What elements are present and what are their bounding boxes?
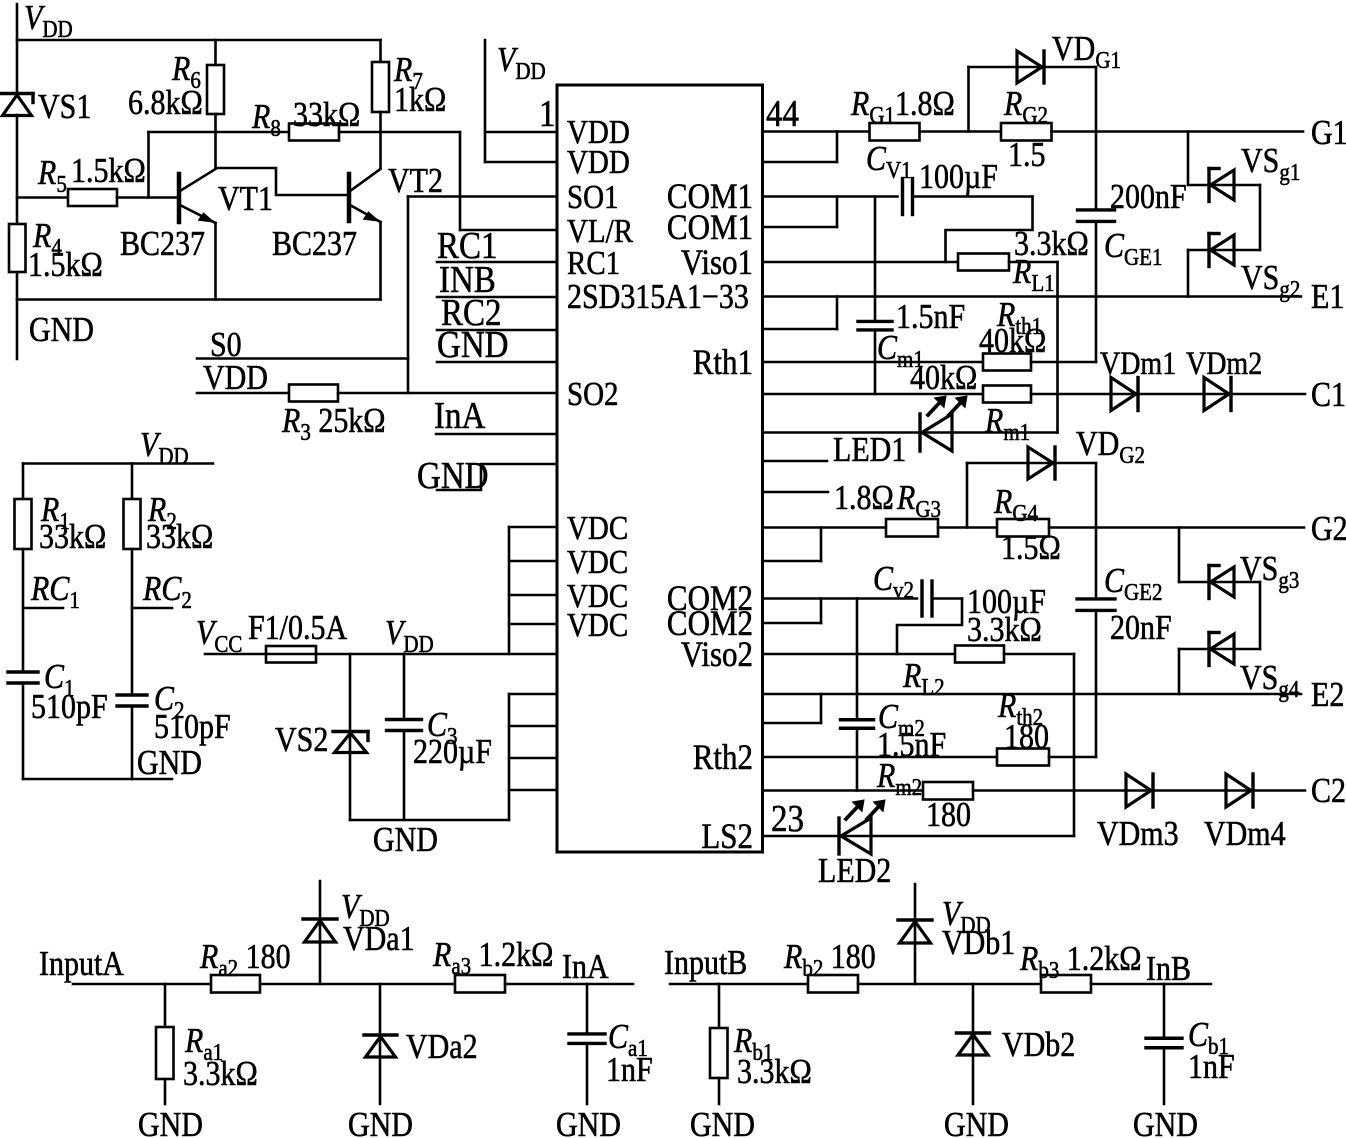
label VDm2 xyxy=(1186,345,1262,381)
pin 1 label xyxy=(539,92,555,135)
svg-text:GND: GND xyxy=(437,323,508,366)
wire VSg1-VSg2 xyxy=(1188,185,1260,250)
svg-text:VDm4: VDm4 xyxy=(1204,815,1286,854)
label GND VDa2 xyxy=(348,1106,413,1138)
label VDD VDa1 xyxy=(341,888,390,931)
svg-text:GND: GND xyxy=(138,1106,203,1138)
label R3 xyxy=(281,402,386,445)
svg-text:100µF: 100µF xyxy=(919,158,998,197)
label InB node xyxy=(1146,950,1191,989)
label InputB xyxy=(664,944,747,983)
label Rth2 xyxy=(997,687,1049,757)
wire E2 stub 2 xyxy=(763,694,822,723)
label VSg2 xyxy=(1241,259,1300,302)
label Ra1 xyxy=(183,1022,258,1094)
svg-text:RC1: RC1 xyxy=(567,244,620,281)
resistor RG4 xyxy=(997,519,1049,537)
wire VDD pin vertical xyxy=(485,40,557,162)
svg-text:1kΩ: 1kΩ xyxy=(394,81,446,120)
label GND Ca1 xyxy=(556,1106,621,1138)
wire stub LED1 pin xyxy=(763,460,828,463)
wire Rth1 line xyxy=(763,361,984,364)
svg-text:180: 180 xyxy=(926,796,971,835)
svg-text:510pF: 510pF xyxy=(31,688,108,727)
label VDD VDb1 xyxy=(942,895,991,938)
label Cv2 value xyxy=(967,583,1046,622)
label C2 xyxy=(154,680,231,747)
svg-text:BC237: BC237 xyxy=(120,225,205,264)
label VT2 xyxy=(388,162,443,201)
capacitor C2 xyxy=(117,695,147,779)
resistor R7 xyxy=(372,40,389,168)
wire R2 top lead xyxy=(131,464,134,500)
wire RL1 to LED1 vertical xyxy=(1056,262,1059,433)
svg-text:InputB: InputB xyxy=(664,944,747,983)
diode VDm4 xyxy=(1226,774,1253,807)
label RG4 xyxy=(993,483,1038,526)
svg-text:20nF: 20nF xyxy=(1110,609,1172,648)
resistor RL2 xyxy=(955,646,1004,663)
resistor Rb2 xyxy=(808,975,858,993)
svg-text:Rb3​ 1.2kΩ: Rb3​ 1.2kΩ xyxy=(1019,940,1141,983)
diode VDa2 xyxy=(364,984,397,1104)
label Cm1 value xyxy=(896,298,965,337)
label VT2 part BC237 xyxy=(272,225,357,264)
label CGE2 xyxy=(1104,562,1163,605)
resistor Rb1 xyxy=(710,984,728,1104)
svg-text:VDm2: VDm2 xyxy=(1186,345,1262,381)
wire pin stub 2 xyxy=(763,132,838,163)
label VS2 xyxy=(275,721,328,760)
diode VDa1 xyxy=(303,881,337,984)
label R5 xyxy=(37,152,146,197)
label Rb2 xyxy=(783,938,876,981)
svg-text:G1: G1 xyxy=(1311,114,1346,153)
wire VT1 emitter down xyxy=(214,223,217,300)
label VCC xyxy=(196,614,242,657)
wire stub RG3 pin xyxy=(763,491,829,494)
label GND under C3 xyxy=(373,821,438,860)
svg-text:COM1: COM1 xyxy=(667,208,753,248)
resistor Ra1 xyxy=(156,984,174,1104)
wire VL/R pin xyxy=(460,132,557,230)
svg-text:LED1: LED1 xyxy=(833,431,906,470)
diode VDb1 xyxy=(898,884,932,984)
svg-text:220µF: 220µF xyxy=(413,733,492,772)
label GND Cb1 xyxy=(1133,1106,1198,1138)
wire VDC stubs xyxy=(509,527,557,654)
label VSg4 xyxy=(1240,659,1300,702)
label RG1 xyxy=(850,85,955,128)
svg-text:33kΩ: 33kΩ xyxy=(39,518,106,557)
label Rm1 value xyxy=(910,359,977,398)
wire InputA line 3 xyxy=(505,983,633,986)
svg-text:VDC: VDC xyxy=(567,509,628,546)
label CV1 value xyxy=(919,158,998,197)
label RG3 value xyxy=(834,479,894,518)
wire bottom rail RC section xyxy=(23,778,172,781)
label VDm4 xyxy=(1204,815,1286,854)
svg-text:VT2: VT2 xyxy=(388,162,443,201)
transistor VT1 xyxy=(179,169,216,223)
label E1 xyxy=(1311,278,1344,317)
diode VDm3 xyxy=(1126,774,1153,807)
resistor R4 xyxy=(9,224,26,272)
svg-text:R3​ 25kΩ: R3​ 25kΩ xyxy=(281,402,386,445)
label GND pin xyxy=(437,323,508,366)
label Rb3 xyxy=(1019,940,1141,983)
label Cm2 value xyxy=(877,726,946,765)
label C1 xyxy=(31,658,108,727)
svg-text:GND: GND xyxy=(373,821,438,860)
label VDD at R3 xyxy=(203,359,268,398)
svg-text:VDa2: VDa2 xyxy=(406,1028,478,1067)
capacitor CGE2 xyxy=(1077,463,1115,757)
capacitor Cm2 xyxy=(841,599,874,791)
label RC1 pin xyxy=(437,224,497,267)
label Ra3 xyxy=(432,936,553,979)
label Ca1 xyxy=(606,1018,653,1090)
label R6 xyxy=(128,50,203,123)
svg-text:SO2: SO2 xyxy=(567,375,619,412)
svg-text:1nF: 1nF xyxy=(606,1051,653,1090)
label Cb1 xyxy=(1188,1016,1235,1087)
svg-text:44: 44 xyxy=(766,92,799,135)
svg-text:VDC: VDC xyxy=(567,606,628,643)
svg-text:Viso2: Viso2 xyxy=(681,635,753,675)
node VDD label top-left xyxy=(24,0,73,42)
resistor RG2 xyxy=(1001,123,1052,141)
label GND jog xyxy=(417,454,488,497)
wire lower stubs to GND xyxy=(509,694,557,820)
transistor VT2 xyxy=(349,169,381,222)
svg-text:BC237: BC237 xyxy=(272,225,357,264)
label CGE2 value xyxy=(1110,609,1172,648)
svg-text:C2: C2 xyxy=(1311,772,1346,811)
svg-text:1: 1 xyxy=(539,92,555,135)
label R4 xyxy=(28,217,103,285)
wire R8 to R5 vertical xyxy=(147,132,150,198)
label RL2 xyxy=(902,657,945,700)
label GND VDb2 xyxy=(944,1106,1009,1138)
resistor Rth2 xyxy=(997,749,1049,766)
wire GND pin xyxy=(437,361,557,364)
svg-text:40kΩ: 40kΩ xyxy=(910,359,977,398)
wire RL1 right xyxy=(1009,261,1058,264)
label RL1 value xyxy=(1014,225,1089,264)
wire pin44 line xyxy=(763,130,870,133)
wire COM1 stub 2 xyxy=(763,197,838,228)
resistor Rm1 xyxy=(983,386,1031,403)
wire VDD rail 2 xyxy=(23,462,213,465)
capacitor Ca1 xyxy=(569,984,605,1104)
wire G1 line xyxy=(1052,130,1304,133)
wire Viso2 xyxy=(763,653,956,656)
wire InputA line 1 xyxy=(73,983,211,986)
svg-text:RG1​1.8Ω: RG1​1.8Ω xyxy=(850,85,955,128)
diode VDG1 xyxy=(969,51,1097,132)
label CGE1 value 200nF xyxy=(1110,178,1187,217)
wire INB pin xyxy=(437,296,557,299)
svg-text:VDD: VDD xyxy=(567,143,630,180)
resistor R1 xyxy=(15,499,32,549)
label InA node xyxy=(562,948,609,987)
resistor Rth1 xyxy=(983,354,1031,371)
svg-text:Ra3​ 1.2kΩ: Ra3​ 1.2kΩ xyxy=(432,936,553,979)
wire VSg2 to E1 xyxy=(1187,250,1190,297)
svg-text:510pF: 510pF xyxy=(154,708,231,747)
svg-text:VS2: VS2 xyxy=(275,721,328,760)
label R2 xyxy=(146,491,213,557)
IC U1 2SD315A1-33 box xyxy=(557,85,763,852)
wire Rth2 line xyxy=(763,756,998,759)
label RC2 node xyxy=(142,570,192,613)
svg-text:E1: E1 xyxy=(1311,278,1344,317)
label RL2 value xyxy=(967,611,1042,650)
resistor Ra2 xyxy=(211,975,260,993)
label VSg3 xyxy=(1240,550,1299,593)
wire CV1 to Viso1 jog xyxy=(946,197,1033,263)
svg-text:InputA: InputA xyxy=(39,945,124,984)
wire RC2 pin xyxy=(437,329,557,332)
svg-text:InA: InA xyxy=(434,394,485,437)
resistor RG1 xyxy=(870,123,920,141)
svg-text:1.5kΩ: 1.5kΩ xyxy=(71,152,146,191)
node RC2 tick xyxy=(132,607,172,610)
zener diode VSg4 xyxy=(1209,633,1234,666)
zener diode VS2 xyxy=(333,654,368,820)
wire InputB line 1 xyxy=(670,983,808,986)
label Rm1 xyxy=(984,402,1030,445)
label Rth1 xyxy=(979,296,1046,361)
wire InputB line 3 xyxy=(1091,983,1211,986)
svg-text:GND: GND xyxy=(944,1106,1009,1138)
svg-text:180: 180 xyxy=(1004,718,1049,757)
label RC1 node xyxy=(30,570,80,613)
capacitor Cv2 xyxy=(763,581,963,616)
capacitor C1 xyxy=(8,672,38,779)
diode VDm1 xyxy=(1111,378,1138,411)
capacitor C3 xyxy=(387,654,422,820)
label VDm3 xyxy=(1097,815,1179,854)
wire VSg4 to E2 xyxy=(1178,649,1181,694)
label VSg1 xyxy=(1241,142,1300,185)
label LED2 xyxy=(818,852,891,891)
label RG4 value xyxy=(1001,529,1061,568)
pin 23 label xyxy=(771,797,804,840)
wire GND line VS2/C3 xyxy=(350,819,509,822)
resistor Ra3 xyxy=(455,975,505,993)
label VDb1 xyxy=(942,924,1015,963)
svg-text:VDC: VDC xyxy=(567,543,628,580)
wire InA pin xyxy=(436,433,557,436)
svg-text:G2: G2 xyxy=(1311,510,1346,549)
node VDD label above pin1 xyxy=(497,41,546,84)
svg-text:6.8kΩ: 6.8kΩ xyxy=(128,84,203,123)
svg-text:GND: GND xyxy=(29,311,94,350)
wire SO1 to SO2 vertical xyxy=(407,197,410,394)
svg-text:F1/0.5A: F1/0.5A xyxy=(248,609,348,648)
label C2 terminal xyxy=(1311,772,1346,811)
resistor R5 xyxy=(17,189,179,206)
svg-text:GND: GND xyxy=(348,1106,413,1138)
wire Rth2 right xyxy=(1049,756,1096,759)
wire Rm2 line xyxy=(763,789,924,792)
capacitor Cm1 xyxy=(858,197,892,395)
label VDa1 xyxy=(343,920,415,959)
label C1 terminal xyxy=(1311,376,1346,415)
wire LS2 line xyxy=(763,835,1075,838)
svg-text:3.3kΩ: 3.3kΩ xyxy=(737,1053,812,1092)
svg-text:VS1: VS1 xyxy=(38,88,91,127)
label RG2 value xyxy=(1008,136,1045,175)
label VDm1 xyxy=(1100,345,1176,381)
label GND Ra1 xyxy=(138,1106,203,1138)
label RG3 xyxy=(896,479,941,522)
svg-text:Rth1: Rth1 xyxy=(693,343,753,383)
label InputA xyxy=(39,945,124,984)
wire COM2 stub 2 xyxy=(763,599,822,624)
svg-text:C1: C1 xyxy=(1311,376,1346,415)
wire RC1 pin xyxy=(437,261,557,264)
wire GND rail xyxy=(17,298,381,301)
wire R1 top lead xyxy=(22,464,25,500)
label VS1 xyxy=(38,88,91,127)
resistor R2 xyxy=(124,499,141,549)
label VDa2 xyxy=(406,1028,478,1067)
label LED1 xyxy=(833,431,906,470)
label Cv2 xyxy=(873,560,914,603)
svg-text:InB: InB xyxy=(1146,950,1191,989)
wire RG1-RG2 xyxy=(920,130,1002,133)
label Ra2 xyxy=(199,938,291,981)
wire VT2 emitter down xyxy=(379,222,382,300)
svg-text:LED2: LED2 xyxy=(818,852,891,891)
svg-text:1nF: 1nF xyxy=(1188,1048,1235,1087)
node VDD label mid-left xyxy=(140,426,189,469)
label RC2 pin xyxy=(441,291,501,334)
wire E1 stub 2 xyxy=(763,297,838,330)
label S0 xyxy=(210,326,242,365)
svg-text:VDb1: VDb1 xyxy=(942,924,1015,963)
label INB pin xyxy=(439,258,496,301)
svg-text:VDm1: VDm1 xyxy=(1100,345,1176,381)
label VT1 xyxy=(218,180,273,219)
svg-text:1.5nF: 1.5nF xyxy=(896,298,965,337)
svg-text:GND: GND xyxy=(556,1106,621,1138)
zener diode VSg1 xyxy=(1209,169,1234,202)
label VDG2 xyxy=(1076,425,1145,468)
wire R1 to C1 xyxy=(22,549,25,672)
svg-text:VDa1: VDa1 xyxy=(343,920,415,959)
wire Cv2 to Viso2 jog xyxy=(897,599,962,655)
wire G2 stub xyxy=(763,528,822,562)
wire InputB line 2 xyxy=(858,983,1041,986)
diode VDG2 xyxy=(967,447,1096,528)
zener diode VSg2 xyxy=(1209,234,1234,267)
wire SO1 pin xyxy=(408,195,557,198)
resistor R3 xyxy=(197,385,557,402)
diode VDb2 xyxy=(957,984,990,1104)
svg-text:Ra2​ 180: Ra2​ 180 xyxy=(199,938,291,981)
label VDG1 xyxy=(1052,30,1121,73)
label Rm2 xyxy=(876,757,922,800)
label Cm2 xyxy=(878,698,925,741)
resistor RL1 xyxy=(958,254,1009,271)
svg-text:VT1: VT1 xyxy=(218,180,273,219)
wire VSg3-VSg4 xyxy=(1179,582,1260,649)
wire LED1 line xyxy=(763,431,1058,434)
wire Viso1 xyxy=(763,261,959,264)
resistor RG3 xyxy=(886,519,938,537)
svg-text:Rth2: Rth2 xyxy=(693,738,753,778)
wire E2 line xyxy=(763,693,1302,696)
wire RG3-RG4 xyxy=(938,526,997,529)
wire GND jog pin xyxy=(437,464,557,490)
wire RL2 to LED2 vertical xyxy=(1073,654,1076,836)
fuse F1 xyxy=(205,646,557,663)
LED LED1 xyxy=(920,396,967,451)
label InA pin xyxy=(434,394,485,437)
svg-text:1.8Ω: 1.8Ω xyxy=(834,479,894,518)
wire Rth1 right xyxy=(1031,361,1096,364)
label GND top-left xyxy=(29,311,94,350)
svg-text:3.3kΩ: 3.3kΩ xyxy=(183,1055,258,1094)
pin 44 label xyxy=(766,92,799,135)
svg-text:33kΩ: 33kΩ xyxy=(293,96,360,135)
wire InputA line 2 xyxy=(260,983,455,986)
svg-text:E2: E2 xyxy=(1311,676,1344,715)
wire Rm1 line xyxy=(763,393,984,396)
svg-text:Rb2​ 180: Rb2​ 180 xyxy=(783,938,876,981)
svg-text:200nF: 200nF xyxy=(1110,178,1187,217)
svg-text:GND: GND xyxy=(1133,1106,1198,1138)
IC right pin names xyxy=(667,177,753,857)
LED LED2 xyxy=(839,800,885,854)
svg-text:Viso1: Viso1 xyxy=(681,243,753,283)
svg-text:3.3kΩ: 3.3kΩ xyxy=(967,611,1042,650)
label F1/0.5A xyxy=(248,609,348,648)
label R1 xyxy=(39,491,106,557)
IC left pin names xyxy=(567,113,749,643)
wire pin1 VDD xyxy=(485,131,557,134)
wire VT1 collector to VT2 base xyxy=(216,168,350,195)
wire RL2 right xyxy=(1004,653,1074,656)
node RC1 tick xyxy=(23,607,63,610)
label Rm2 value xyxy=(926,796,971,835)
resistor R8 xyxy=(149,124,461,141)
svg-text:GND: GND xyxy=(137,744,202,783)
wire R2 to C2 xyxy=(131,549,134,695)
label C3 xyxy=(413,706,492,772)
zener diode VS1 xyxy=(0,94,33,116)
svg-text:33kΩ: 33kΩ xyxy=(146,518,213,557)
svg-text:1.5Ω: 1.5Ω xyxy=(1001,529,1061,568)
svg-text:1.5kΩ: 1.5kΩ xyxy=(28,246,103,285)
capacitor Cb1 xyxy=(1146,984,1182,1104)
label GND RC section xyxy=(137,744,202,783)
svg-text:InA: InA xyxy=(562,948,609,987)
svg-text:VDm3: VDm3 xyxy=(1097,815,1179,854)
svg-text:2SD315A1−33: 2SD315A1−33 xyxy=(567,278,749,317)
label Rb1 xyxy=(733,1022,812,1092)
label R8 xyxy=(251,96,360,141)
svg-text:GND: GND xyxy=(690,1106,755,1138)
resistor Rb3 xyxy=(1041,975,1091,993)
wire G2 line right xyxy=(1049,526,1304,529)
label VDb2 xyxy=(1002,1026,1075,1065)
label CGE1 xyxy=(1104,227,1163,270)
